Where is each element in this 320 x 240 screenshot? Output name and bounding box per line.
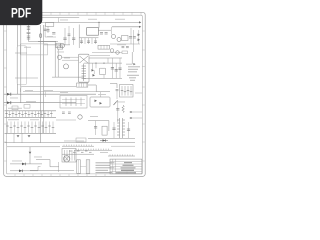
label smudge t17 — [47, 35, 53, 38]
wire mid horizontal y77 — [52, 76, 84, 78]
dense block lowmid — [62, 149, 76, 163]
wire AC neutral top — [40, 21, 139, 23]
border zone ticks left — [4, 31, 7, 161]
wire mid y120 — [56, 119, 76, 121]
junction dot b — [103, 63, 104, 64]
IC U1 control — [87, 28, 99, 36]
second comb bus — [5, 132, 57, 134]
wire U1 left drop — [78, 25, 80, 49]
label smudge t15 — [34, 156, 42, 159]
second comb elements — [8, 122, 54, 134]
terminal strip C — [108, 154, 135, 156]
left comb elements — [7, 111, 52, 118]
capacitor C5 — [72, 38, 75, 40]
wire caps chain down — [116, 91, 118, 99]
diode D6 down — [28, 135, 31, 137]
transformer T1 winding — [82, 64, 87, 82]
wire mid horiz y41 — [38, 40, 56, 42]
label smudge t11 — [116, 101, 125, 104]
diode D8 — [22, 163, 26, 166]
notes block bottom line5 — [96, 172, 113, 173]
relay K1 — [56, 43, 61, 48]
PDF badge — [0, 0, 42, 25]
wire diode link — [93, 70, 95, 74]
wire lad vertical x48 — [47, 26, 49, 33]
label smudge t10 — [98, 93, 106, 96]
wire stub frame y118 — [129, 117, 142, 119]
capacitor C4 — [63, 38, 66, 40]
label smudge t14 — [100, 151, 108, 154]
wire into caps cluster — [110, 84, 117, 89]
wire v x58 — [57, 162, 59, 172]
wire main bottom bus — [5, 142, 136, 144]
wire sec bus y52 — [92, 52, 122, 54]
wire mid vertical x55 — [54, 41, 56, 77]
transistor Q9 lead — [114, 101, 118, 106]
svg-text:PDF: PDF — [11, 6, 31, 21]
capacitor C8 — [129, 37, 132, 39]
polarized cap A — [7, 93, 11, 96]
wire fan row — [62, 153, 94, 155]
wire left bus B — [20, 25, 22, 103]
transistor Q5 — [64, 64, 69, 69]
wire sec bus y55 — [90, 54, 110, 56]
notes block bottom line3 — [96, 167, 112, 168]
wire y146 right — [111, 145, 135, 147]
capacitor C2 — [47, 30, 50, 31]
polarized cap B — [7, 101, 11, 104]
title text number — [121, 170, 134, 171]
label smudge t7 — [44, 89, 53, 92]
label smudge t12 — [90, 115, 98, 118]
capacitor C7 — [105, 33, 108, 34]
resistor R1 — [80, 41, 83, 42]
wire y138 — [88, 137, 135, 139]
wire diode feed — [92, 63, 94, 69]
capacitor C11 — [115, 63, 118, 78]
wire ladder mid — [44, 25, 46, 37]
wire drop x69 — [68, 26, 70, 45]
label smudge t2 — [88, 18, 97, 21]
capacitor C10 — [111, 58, 114, 78]
connector J1 — [77, 83, 88, 87]
title text name — [123, 165, 134, 166]
border zone ticks top — [15, 12, 141, 15]
sheet outer border frame — [4, 12, 146, 176]
diode D9 — [19, 170, 23, 173]
wire right drop — [126, 52, 132, 64]
left comb cap ticks — [5, 113, 52, 114]
left component comb top bus — [5, 110, 57, 112]
motor M1 — [63, 156, 69, 162]
wire AC line top — [40, 17, 79, 19]
wire choke out — [29, 41, 59, 43]
wire u2 drop — [107, 58, 109, 63]
wire right cluster drop2 — [138, 30, 140, 44]
connector block bottom box2 — [86, 160, 90, 174]
transistor Q2 — [112, 35, 116, 39]
capacitor C13 — [116, 109, 119, 111]
note text line4 — [127, 75, 139, 76]
wire enclosure drop — [44, 92, 46, 97]
wire bl bottom — [10, 170, 38, 172]
arrow signal out B — [139, 26, 141, 28]
label smudge t13 — [64, 140, 84, 143]
arrow signal out A — [139, 21, 141, 23]
border zone ticks bottom — [15, 174, 105, 177]
wire x100 drop — [100, 92, 102, 97]
wire drop to lower left — [29, 147, 31, 164]
sheet inner border frame — [7, 15, 143, 174]
transformer T1 body — [79, 54, 90, 82]
wire cluster base — [110, 43, 140, 45]
title block outline — [110, 159, 142, 174]
label smudge t18 — [117, 43, 126, 46]
left component comb bottom bus — [5, 116, 57, 118]
capacitor C15 — [127, 122, 130, 138]
title text desc — [121, 167, 136, 168]
wire right cluster drop — [130, 28, 132, 44]
diode D4 — [93, 74, 96, 77]
terminal strip B — [74, 149, 112, 151]
small box row A — [12, 106, 18, 110]
capacitor C18 — [126, 47, 129, 48]
arrow right drop — [133, 63, 135, 65]
dense block mid rect — [60, 96, 87, 109]
capacitor C17 — [122, 47, 125, 48]
wire signal out B — [112, 26, 139, 28]
resistor R5 zigzag — [122, 105, 124, 113]
diode D10 on drop — [29, 152, 32, 154]
wire link x58.5 — [58, 18, 60, 23]
wire bottom secondary — [7, 146, 60, 148]
capacitor C12 — [118, 58, 121, 78]
wire U1 bottom rail — [79, 37, 98, 39]
wire opto out — [103, 75, 105, 79]
wire drop x22 — [21, 133, 23, 142]
wire upper-right vertical — [133, 30, 135, 52]
label smudge t4 — [57, 51, 64, 54]
note text line3 — [128, 71, 137, 72]
note text line5 — [129, 77, 136, 78]
fan row hanging parts — [69, 151, 92, 152]
resistor R3 — [94, 41, 97, 42]
title block rows — [110, 162, 142, 172]
enclosure box A — [20, 44, 47, 55]
wire sec bus y78 — [84, 77, 122, 79]
wire left bus D — [43, 25, 45, 133]
capacitor C9 — [133, 37, 136, 39]
enclosure box corner — [21, 87, 77, 93]
wire between connector boxes — [80, 166, 86, 168]
capacitor C1 — [44, 29, 47, 30]
wire drop x14 — [13, 133, 15, 142]
wire J1 to bus — [88, 85, 110, 92]
fuse F1 — [40, 34, 42, 38]
transistor Q7 — [116, 51, 120, 55]
transistor Q6 — [110, 49, 114, 53]
transistor Q4 — [58, 55, 62, 59]
wire sec bus y58 — [89, 57, 122, 59]
resistor R8 — [68, 112, 71, 113]
wire stub frame y93 — [135, 92, 142, 94]
diode D7 — [100, 139, 108, 142]
label smudge rowC — [8, 118, 19, 121]
capacitor C16 — [112, 122, 115, 138]
capacitor C20 — [68, 34, 71, 35]
wire left bus C — [40, 25, 42, 143]
capacitor C6 — [100, 33, 103, 34]
wire stub left zoneB — [15, 77, 38, 79]
small box y140 — [76, 138, 86, 142]
wire vertical x73.7 — [73, 28, 75, 45]
diode D2 — [138, 39, 140, 42]
capacitor C14 — [94, 121, 97, 135]
junction dot feed — [98, 22, 99, 23]
label smudge rowB — [26, 100, 36, 103]
label smudge t9 — [60, 91, 68, 94]
wire stub frame y112 — [129, 111, 142, 113]
label smudge t6 — [25, 89, 33, 92]
small box row B — [24, 105, 30, 109]
wire mid vertical x58 — [57, 49, 59, 77]
IC U2 — [98, 45, 110, 49]
wire q4 to transformer — [62, 56, 79, 58]
enclosure box A label — [24, 46, 31, 49]
U1 pin stubs — [82, 38, 96, 44]
wire bl top — [10, 163, 42, 165]
wire stub left zoneA — [15, 52, 27, 54]
wire U1 right — [98, 29, 111, 31]
label smudge rowD — [30, 118, 39, 121]
notes block bottom line2 — [96, 165, 111, 166]
capacitor C3 — [52, 33, 55, 35]
line filter FL1 — [46, 23, 54, 27]
wire q9 drop — [117, 101, 119, 123]
title text footer — [116, 172, 136, 173]
junction dot a — [95, 63, 96, 64]
wire sec bus y63 — [84, 62, 122, 64]
rectifier box right — [90, 97, 110, 107]
label smudge t5 — [64, 57, 70, 60]
notes block bottom line1 — [96, 162, 113, 163]
wire top-mid feed — [98, 22, 100, 27]
label smudge t1 — [60, 19, 68, 22]
wire q5 feed — [62, 59, 79, 61]
IC U2 pins — [101, 45, 107, 49]
title text cell1 — [111, 161, 115, 164]
notes block bottom line4 — [96, 170, 109, 171]
title text cell2 — [111, 166, 115, 169]
wire opto feed — [95, 63, 97, 68]
note text line2 — [128, 69, 138, 70]
label smudge rowA — [8, 107, 22, 110]
label smudge t16 — [12, 160, 22, 163]
transistor Q3 — [117, 38, 121, 42]
title block bottom cells — [119, 172, 135, 174]
relay K2 — [58, 46, 63, 49]
label smudge t3 — [115, 18, 125, 21]
transistor Q1 — [60, 43, 64, 47]
resistor R6 — [122, 51, 128, 54]
terminal strip A — [62, 145, 94, 147]
capacitor C19 — [116, 90, 119, 91]
wire left bus A — [16, 25, 18, 94]
transformer T1 cross — [80, 56, 89, 63]
wire bl corner — [38, 167, 41, 171]
note text line1 — [128, 66, 140, 67]
wire enclosure mid — [23, 91, 96, 93]
border zone ticks right — [142, 31, 145, 161]
resistor R4 box — [122, 36, 129, 41]
wire vertical x65 — [64, 28, 66, 45]
wire low mid y120 — [88, 121, 109, 131]
wire block feed — [36, 160, 59, 167]
wire bottom long — [30, 169, 74, 171]
label smudge t8 — [10, 97, 18, 100]
wire feedback left A — [4, 93, 96, 95]
resistor R7 — [62, 112, 65, 113]
optocoupler U3 — [99, 68, 105, 74]
right block caps cluster — [120, 85, 134, 98]
title block columns — [113, 159, 116, 174]
diode D1 — [138, 34, 140, 37]
wire feedback left B — [4, 102, 76, 104]
diode D3 — [92, 69, 95, 72]
title text model — [124, 162, 132, 163]
regulator U4 — [102, 126, 107, 135]
enclosure box B — [17, 46, 26, 85]
diode D5 down — [17, 135, 20, 137]
wire y37 — [45, 36, 56, 38]
wire mid horiz y45 — [44, 44, 70, 46]
filter choke chain — [27, 25, 31, 42]
second comb cap ticks — [6, 126, 54, 128]
connector block bottom box1 — [77, 160, 81, 174]
resistor R2 — [87, 41, 90, 42]
transformer T2 windings — [117, 118, 125, 138]
transistor Q8 — [78, 115, 82, 119]
wire B into cluster — [111, 27, 113, 35]
note text line6 — [130, 80, 135, 81]
